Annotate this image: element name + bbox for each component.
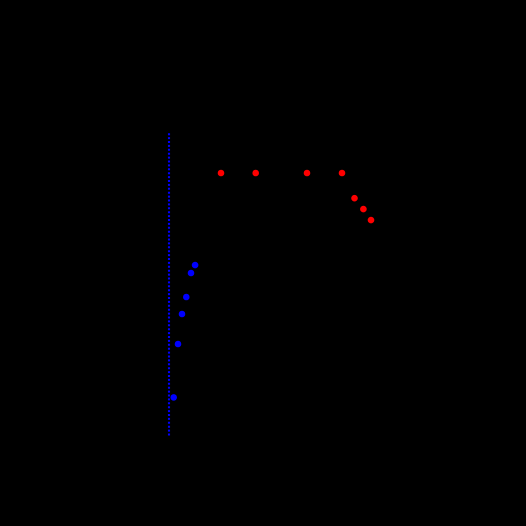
blue point 2 — [188, 270, 195, 277]
red point 1 — [218, 170, 225, 177]
blue point 6 — [170, 394, 177, 401]
blue point 3 — [183, 294, 190, 301]
red point 2 — [252, 170, 259, 177]
blue point 1 — [192, 262, 199, 269]
blue dotted vertical reference line (abline) — [168, 133, 170, 436]
red point 4 — [339, 170, 346, 177]
red point 5 — [351, 195, 358, 202]
blue point 5 — [175, 341, 182, 348]
blue point 4 — [179, 311, 186, 318]
red point 6 — [360, 206, 367, 213]
red point 3 — [304, 170, 311, 177]
red point 7 — [368, 217, 375, 224]
